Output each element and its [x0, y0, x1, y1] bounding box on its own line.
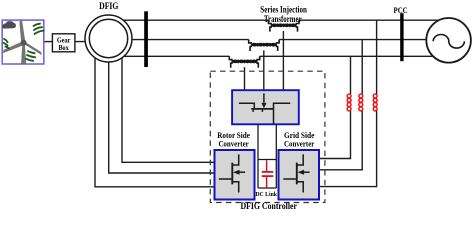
svg-text:Transformer: Transformer	[264, 14, 302, 24]
wire phase C bottom left segment	[122, 55, 229, 57]
wind marks left	[4, 39, 8, 42]
inductor L3 (red coil)	[373, 94, 377, 111]
series converter box	[232, 90, 299, 124]
wire transformer 1 secondary drop	[282, 31, 284, 91]
wire turbine to gearbox	[44, 41, 53, 43]
IGBT symbol (grid)	[283, 154, 309, 192]
wire phase A top right segment	[299, 19, 445, 21]
wire grid-converter phase 1	[319, 56, 351, 158]
bus bar PCC	[400, 13, 403, 61]
svg-text:Box: Box	[58, 43, 68, 52]
svg-text:Converter: Converter	[218, 139, 248, 149]
hub	[21, 40, 27, 46]
svg-text:DC Link: DC Link	[255, 191, 277, 198]
cloud	[2, 21, 16, 28]
turbine blade up	[20, 21, 26, 43]
DC link rail right	[275, 124, 277, 188]
wire transformer 3 secondary drop	[244, 67, 246, 91]
svg-text:PCC: PCC	[394, 5, 408, 15]
wire transformer 2 secondary drop	[263, 50, 265, 91]
turbine tower	[21, 45, 26, 64]
bus bar (DFIG stator bus)	[144, 11, 148, 67]
svg-text:Converter: Converter	[284, 139, 314, 149]
sine wave	[433, 34, 464, 48]
transformer T3 (bottom phase)	[229, 56, 259, 67]
wire phase B middle right segment	[279, 39, 430, 41]
wire phase A top left segment	[122, 19, 269, 21]
wire grid-converter phase 3	[319, 20, 377, 186]
IGBT symbol (series)	[239, 93, 290, 124]
rotor side converter box	[215, 150, 255, 200]
grid side converter box	[279, 150, 320, 200]
turbine blade lower-right	[24, 41, 42, 54]
inductor L1 (red coil)	[347, 94, 351, 111]
DC link tie bottom	[258, 187, 276, 189]
wind turbine picture box	[2, 20, 44, 64]
wire rotor phase 3	[122, 50, 215, 162]
wire phase C bottom right segment	[260, 55, 436, 57]
DC link rail left	[257, 124, 259, 188]
wire rotor phase 1	[95, 50, 215, 187]
DFIG machine circle	[85, 15, 132, 62]
capacitor C (DC link, red)	[262, 160, 274, 187]
wind marks bottom	[28, 51, 35, 53]
wire rotor phase 2	[109, 55, 215, 173]
DFIG controller dashed box	[210, 71, 325, 202]
DC link tie top	[258, 159, 276, 161]
turbine blade lower-left	[3, 42, 23, 53]
wire grid-converter phase 2	[319, 40, 362, 170]
wire phase B middle left segment	[128, 39, 249, 41]
wire gearbox to DFIG	[75, 41, 95, 43]
svg-text:Series Injection: Series Injection	[260, 4, 307, 14]
transformer T2 (middle phase)	[249, 40, 279, 51]
inductor L2 (red coil)	[359, 94, 363, 111]
svg-text:DFIG: DFIG	[99, 1, 118, 11]
transformer T1 (top phase)	[269, 20, 299, 31]
wind marks top right	[34, 24, 41, 26]
grid source circle at PCC	[426, 18, 471, 63]
IGBT symbol (rotor)	[219, 154, 245, 192]
svg-text:DFIG Controller: DFIG Controller	[240, 201, 297, 212]
gear box	[52, 34, 75, 52]
